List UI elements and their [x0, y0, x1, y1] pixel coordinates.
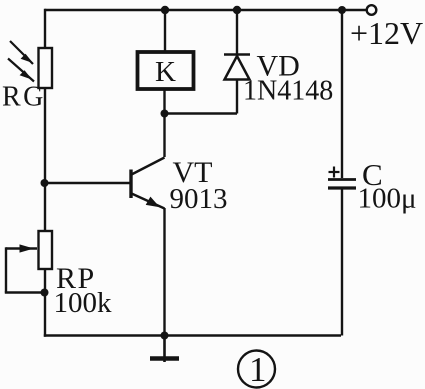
svg-text:1: 1	[249, 350, 267, 389]
svg-text:100μ: 100μ	[358, 183, 417, 215]
value 100u	[358, 183, 417, 215]
capacitor C	[328, 180, 356, 189]
wire bottom rail	[44, 334, 341, 336]
wire base lead	[45, 182, 130, 184]
wire diode VD anode lead	[236, 79, 238, 114]
junction dot base node	[41, 179, 49, 187]
svg-text:K: K	[155, 56, 176, 88]
label K	[155, 56, 176, 88]
polarity plus of C	[329, 167, 340, 178]
wire left rail upper	[44, 9, 46, 48]
svg-text:RG: RG	[2, 82, 46, 113]
junction dot top at K	[161, 6, 169, 14]
value 100k	[54, 287, 113, 319]
wire diode VD cathode lead	[236, 10, 238, 55]
photoresistor RG	[39, 48, 53, 88]
light arrow 1 for RG	[10, 41, 33, 64]
wire wiper loop of RP	[5, 247, 45, 292]
potentiometer RP	[39, 231, 53, 269]
junction dot collector node	[161, 110, 169, 118]
label VT	[173, 156, 213, 189]
figure number 1	[238, 350, 275, 389]
wire relay K top lead	[164, 10, 166, 52]
power terminal +12V	[367, 5, 377, 15]
value 9013	[170, 183, 228, 215]
wire relay K bottom lead to collector node	[163, 89, 165, 157]
transistor VT	[131, 158, 165, 209]
svg-text:9013: 9013	[170, 183, 228, 215]
junction dot ground node	[161, 332, 169, 340]
wire left rail middle	[44, 88, 46, 231]
svg-text:100k: 100k	[54, 287, 113, 319]
wire emitter rail	[163, 208, 165, 336]
junction dot top at VD	[233, 6, 241, 14]
junction dot top right corner	[338, 6, 346, 14]
relay K	[138, 52, 194, 89]
wire node to diode VD anode	[165, 112, 238, 114]
wire right rail lower	[341, 190, 343, 336]
value 1N4148	[243, 76, 333, 107]
wire right rail upper	[341, 9, 343, 178]
label RP	[56, 262, 96, 295]
wire left rail lower	[44, 269, 46, 337]
wire top rail	[45, 9, 367, 11]
diode VD	[224, 55, 250, 80]
svg-text:1N4148: 1N4148	[243, 76, 333, 107]
wiper arrow of RP	[6, 245, 37, 252]
junction dot RP bottom	[41, 289, 49, 297]
svg-text:+12V: +12V	[350, 15, 423, 51]
label +12V	[350, 15, 423, 51]
ground	[150, 336, 179, 363]
light arrow 2 for RG	[8, 59, 34, 82]
label RG	[2, 82, 46, 113]
label VD	[257, 50, 300, 83]
label C	[362, 157, 383, 192]
